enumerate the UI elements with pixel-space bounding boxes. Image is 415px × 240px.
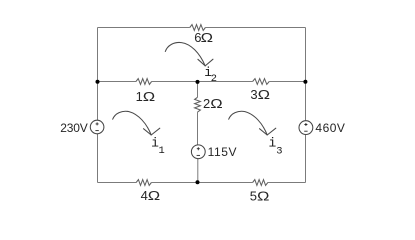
svg-text:Ω: Ω xyxy=(210,97,222,112)
svg-text:115V: 115V xyxy=(208,145,238,159)
svg-text:3: 3 xyxy=(276,145,282,157)
svg-text:2: 2 xyxy=(211,73,217,85)
svg-text:4: 4 xyxy=(141,188,148,203)
svg-text:Ω: Ω xyxy=(201,31,213,46)
svg-text:Ω: Ω xyxy=(258,88,270,103)
svg-text:460V: 460V xyxy=(315,121,345,135)
svg-text:3: 3 xyxy=(250,87,257,102)
svg-text:230V: 230V xyxy=(60,121,87,135)
svg-text:1: 1 xyxy=(159,145,165,157)
svg-text:Ω: Ω xyxy=(257,189,269,204)
svg-text:i: i xyxy=(269,136,277,151)
svg-text:1: 1 xyxy=(136,89,143,104)
svg-text:5: 5 xyxy=(250,188,257,203)
svg-text:2: 2 xyxy=(203,96,210,111)
svg-text:Ω: Ω xyxy=(148,188,160,203)
svg-text:Ω: Ω xyxy=(143,90,155,105)
